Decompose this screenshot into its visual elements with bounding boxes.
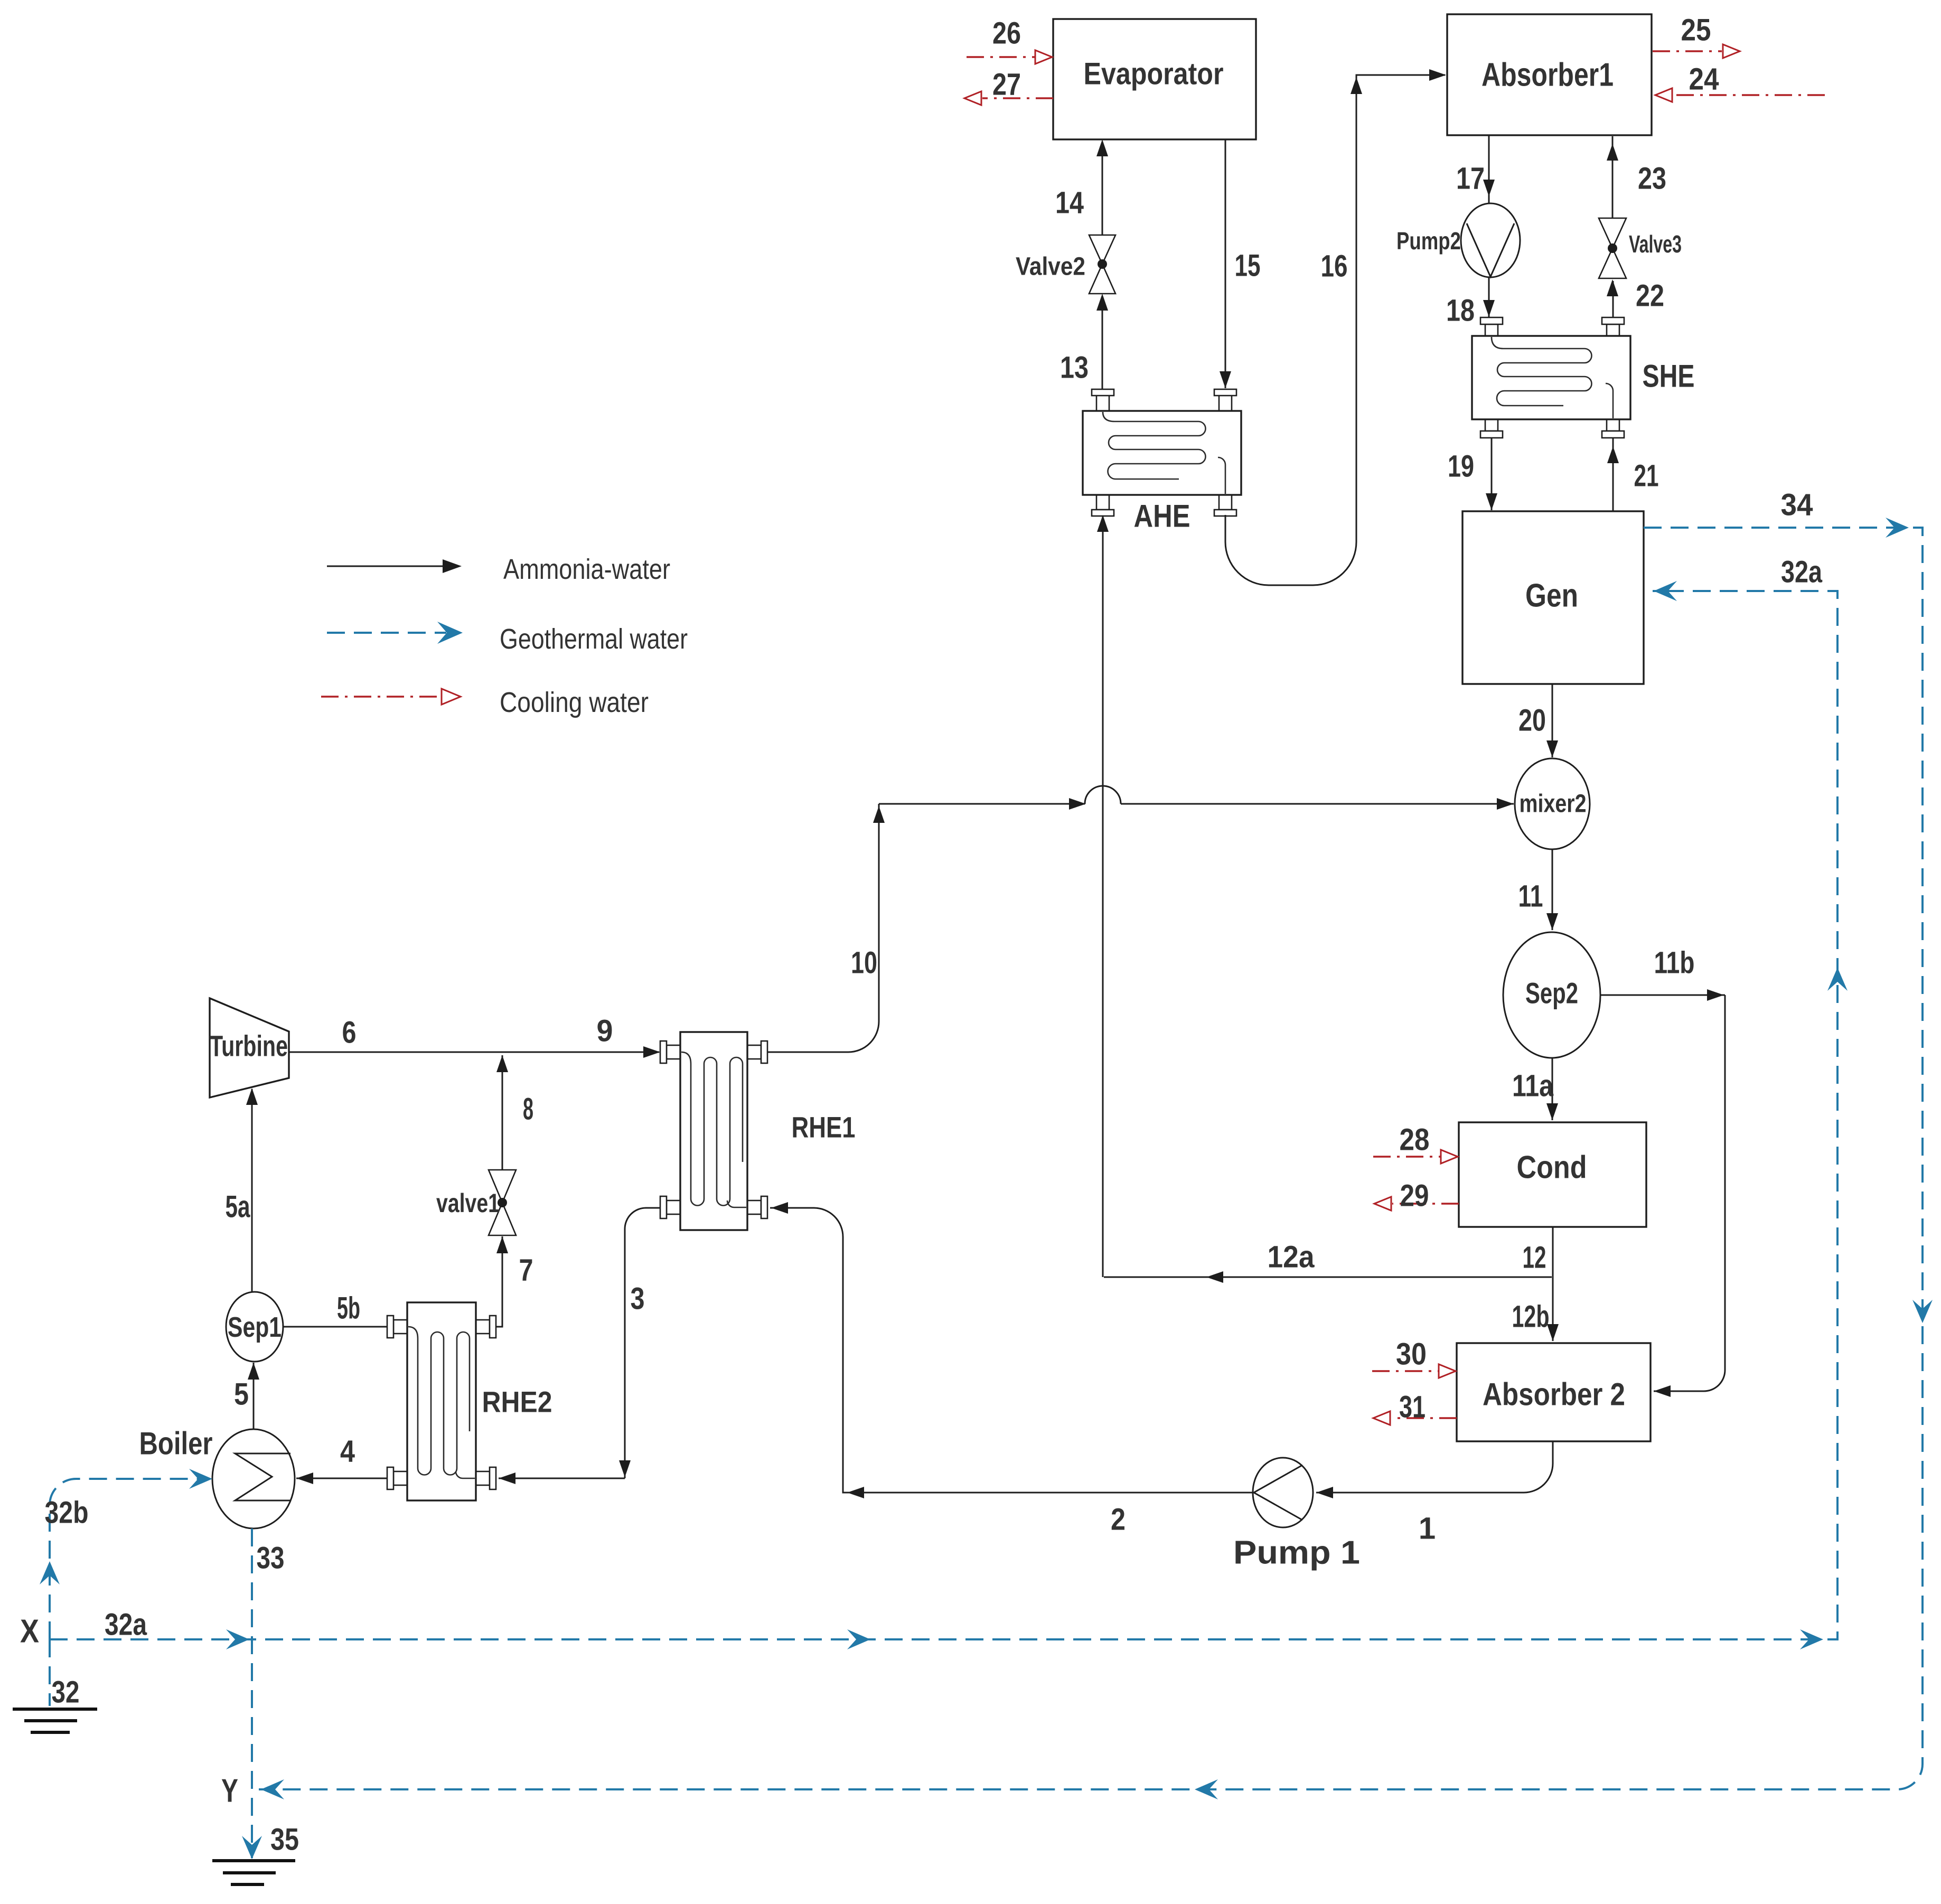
Evaporator [1053,19,1256,139]
legend ammonia-water arrow [327,559,462,573]
Absorber1 [1447,14,1652,135]
svg-text:21: 21 [1634,459,1659,493]
svg-text:11b: 11b [1654,946,1695,980]
wire 16 AHE to Absorber1 [1225,69,1446,585]
geothermal wire 32a X to Gen [50,581,1848,1649]
wire 11a Sep2 to Cond [1546,1058,1558,1120]
svg-text:Cooling water: Cooling water [500,687,649,718]
svg-text:4: 4 [340,1434,355,1469]
svg-text:Ammonia-water: Ammonia-water [503,554,670,585]
valve Valve3 [1599,218,1626,278]
svg-text:14: 14 [1055,186,1084,220]
heat exchanger SHE [1472,317,1630,438]
svg-text:12b: 12b [1512,1300,1550,1334]
cooling wire 29 out of Cond [1374,1197,1459,1211]
svg-text:mixer2: mixer2 [1520,790,1587,818]
wire 1 Absorber2 to Pump1 [1316,1441,1553,1498]
wire 5b Sep1 to RHE2 [283,1326,387,1328]
Absorber 2 [1457,1343,1651,1441]
svg-text:29: 29 [1400,1179,1429,1213]
wire 4 RHE2 to boiler [296,1472,387,1484]
svg-text:Pump 1: Pump 1 [1233,1535,1360,1571]
svg-text:32b: 32b [45,1496,89,1530]
legend cooling arrow [321,689,461,705]
svg-text:9: 9 [597,1014,613,1048]
wire 10 RHE1 to riser corner [767,804,885,1052]
wire 13 AHE to valve2 [1096,294,1108,389]
heat exchanger RHE1 [660,1032,767,1230]
legend geothermal arrow [327,622,463,644]
svg-text:5: 5 [234,1377,249,1412]
wire 7 RHE2 to valve1 [496,1236,508,1327]
svg-text:33: 33 [257,1541,285,1575]
geothermal wire 33 boiler to ground 35 [242,1528,262,1859]
ground 35 [212,1861,295,1884]
geothermal wire 32 X to ground [49,1639,51,1706]
wire 15 evaporator to AHE [1220,139,1231,388]
svg-text:35: 35 [270,1823,299,1857]
Cond [1459,1122,1646,1227]
svg-text:SHE: SHE [1643,359,1695,394]
svg-text:1: 1 [1419,1512,1436,1546]
wire 18 Pump2 to SHE [1483,278,1495,317]
wire 11b Sep2 to Absorber2 [1600,989,1725,1397]
wire 14 valve2 to evaporator [1096,139,1108,235]
svg-text:16: 16 [1321,249,1348,284]
svg-text:18: 18 [1446,294,1475,328]
svg-text:Absorber 2: Absorber 2 [1483,1377,1625,1412]
cooling wire 31 out of Absorber2 [1373,1411,1457,1425]
cooling wire 30 into Absorber2 [1372,1364,1456,1378]
wire 17 Absorber1 to Pump2 [1483,135,1495,203]
ground 32 [13,1709,97,1732]
separator Sep2 [1503,932,1600,1058]
svg-text:13: 13 [1060,351,1089,385]
svg-text:31: 31 [1399,1390,1426,1424]
valve Valve2 [1089,235,1115,294]
wire 11 mixer2 to Sep2 [1546,849,1558,930]
svg-text:Turbine: Turbine [210,1029,288,1063]
wire 22 SHE to valve3 [1607,279,1618,317]
svg-text:Pump2: Pump2 [1396,227,1461,255]
svg-text:Evaporator: Evaporator [1084,57,1224,91]
wire 3 RHE1 to RHE2 [499,1208,660,1484]
wire 5 boiler to Sep1 [248,1363,259,1429]
separator Sep1 [226,1292,283,1362]
svg-text:Gen: Gen [1525,578,1578,614]
heat exchanger AHE [1083,389,1241,516]
svg-text:Sep2: Sep2 [1525,977,1578,1010]
svg-text:22: 22 [1636,279,1664,313]
mixer2 [1515,758,1590,849]
wire 5a Sep1 to turbine [246,1088,258,1292]
wire 12a riser to AHE [1097,515,1109,1277]
svg-text:Cond: Cond [1517,1150,1587,1185]
svg-text:8: 8 [523,1092,533,1127]
Boiler [212,1429,295,1528]
svg-text:3: 3 [631,1282,645,1316]
svg-text:AHE: AHE [1134,499,1190,534]
svg-text:RHE1: RHE1 [792,1111,856,1144]
svg-text:2: 2 [1111,1503,1126,1537]
wire 12b junction to Absorber2 [1547,1277,1559,1341]
pump Pump1 [1253,1458,1313,1527]
svg-text:27: 27 [992,68,1021,102]
wire 8 valve1 to line6 [496,1055,508,1170]
svg-text:32a: 32a [105,1608,147,1642]
cooling wire 24 into Absorber1 [1655,88,1825,102]
valve valve1 [489,1170,516,1235]
svg-text:X: X [20,1614,39,1650]
heat exchanger RHE2 [387,1302,496,1500]
svg-text:11a: 11a [1512,1069,1554,1103]
wire 23 valve3 to Absorber1 [1607,136,1618,218]
svg-text:Valve2: Valve2 [1016,253,1085,281]
wire 19 SHE to Gen [1486,438,1497,510]
svg-text:20: 20 [1518,704,1546,738]
svg-text:Boiler: Boiler [139,1426,213,1461]
svg-text:28: 28 [1400,1123,1430,1157]
cooling wire 28 into Cond [1373,1150,1458,1164]
svg-text:7: 7 [519,1253,533,1288]
geothermal wire 34 Gen to Y [259,518,1933,1799]
cooling wire 26 into evaporator [967,50,1052,64]
svg-text:26: 26 [992,16,1021,51]
svg-text:34: 34 [1781,488,1813,522]
svg-text:5a: 5a [226,1190,251,1224]
geothermal wire 32b X to boiler [40,1469,212,1639]
pump Pump2 [1461,203,1520,277]
cooling wire 25 out of Absorber1 [1653,44,1740,58]
svg-text:32: 32 [52,1675,80,1710]
wire 12 Cond down [1552,1227,1554,1277]
Gen [1462,511,1644,684]
svg-text:Valve3: Valve3 [1629,230,1682,258]
svg-text:6: 6 [342,1016,357,1050]
svg-text:Absorber1: Absorber1 [1481,57,1614,93]
svg-text:RHE2: RHE2 [482,1385,552,1419]
svg-text:24: 24 [1689,62,1719,97]
svg-text:Sep1: Sep1 [228,1311,282,1343]
svg-text:11: 11 [1518,879,1543,914]
wire 20 Gen to mixer2 [1546,684,1558,757]
svg-text:19: 19 [1448,449,1474,484]
svg-text:5b: 5b [337,1291,360,1326]
svg-text:25: 25 [1681,13,1711,48]
wire 2 Pump1 to RHE1 [770,1202,1253,1498]
svg-text:23: 23 [1638,162,1666,196]
svg-text:12: 12 [1523,1241,1546,1275]
svg-text:17: 17 [1456,162,1485,196]
svg-text:15: 15 [1235,249,1261,283]
svg-text:valve1: valve1 [436,1188,500,1218]
svg-text:32a: 32a [1781,555,1823,589]
svg-text:30: 30 [1396,1337,1427,1372]
cooling wire 27 out of evaporator [964,91,1053,105]
svg-text:Y: Y [221,1773,238,1809]
wire 12a junction to riser [1104,1271,1552,1283]
wire 21 Gen to SHE [1607,438,1619,511]
svg-text:Geothermal water: Geothermal water [500,623,688,655]
wire 6 9 turbine to RHE1 [289,1046,660,1058]
svg-text:12a: 12a [1268,1240,1315,1274]
turbine [210,998,289,1098]
wire mixer feed horizontal with hop [879,786,1514,810]
svg-text:10: 10 [851,946,877,980]
